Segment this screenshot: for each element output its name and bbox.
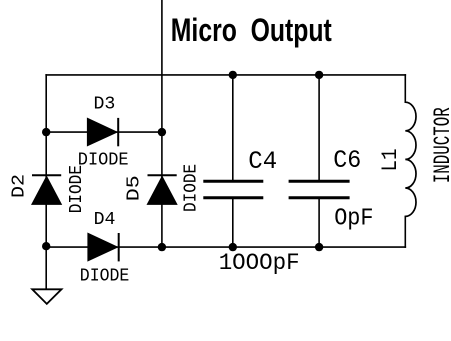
node junction dot D5 bottom bbox=[158, 243, 166, 251]
wire center vertical (Micro Output net) bbox=[161, 0, 163, 247]
capacitor C6 bbox=[289, 181, 350, 197]
wire left vertical bbox=[45, 75, 47, 289]
wire right vertical bottom (from inductor) bbox=[404, 216, 406, 247]
wire bottom bus bbox=[46, 246, 405, 248]
node junction dot C4 top bbox=[229, 71, 237, 79]
wire top bus bbox=[46, 74, 405, 76]
wire right vertical top (to inductor) bbox=[404, 75, 406, 102]
svg-text:DIODE: DIODE bbox=[80, 267, 130, 287]
diode D5 bbox=[148, 175, 177, 204]
inductor L1 coil bbox=[405, 102, 416, 216]
diode D4 bbox=[88, 233, 119, 261]
svg-text:C4: C4 bbox=[248, 147, 277, 176]
wire C4 branch bottom bbox=[232, 198, 234, 247]
wire C6 branch top bbox=[318, 75, 320, 181]
svg-text:D5: D5 bbox=[125, 175, 145, 201]
wire D3 row bbox=[46, 131, 162, 133]
ground bbox=[32, 289, 61, 304]
svg-text:Micro Output: Micro Output bbox=[171, 12, 332, 48]
node junction dot ground bbox=[42, 242, 50, 250]
svg-text:L1: L1 bbox=[377, 149, 403, 172]
capacitor C4 bbox=[203, 181, 263, 197]
svg-text:DIODE: DIODE bbox=[181, 164, 201, 212]
diode D3 bbox=[88, 118, 119, 146]
node junction dot C6 bottom bbox=[315, 243, 323, 251]
svg-text:D2: D2 bbox=[10, 174, 30, 198]
node junction dot C6 top bbox=[315, 71, 323, 79]
node junction dot D3 left bbox=[42, 128, 50, 136]
node junction dot D3 right bbox=[158, 128, 166, 136]
wire C6 branch bottom bbox=[318, 198, 320, 247]
node junction dot C4 bottom bbox=[229, 243, 237, 251]
svg-text:D4: D4 bbox=[94, 210, 116, 230]
svg-text:DIODE: DIODE bbox=[67, 165, 87, 213]
svg-text:1OOOpF: 1OOOpF bbox=[219, 250, 300, 277]
svg-text:D3: D3 bbox=[94, 95, 116, 115]
svg-text:OpF: OpF bbox=[334, 205, 373, 232]
diode D2 bbox=[32, 175, 61, 204]
svg-text:C6: C6 bbox=[333, 147, 361, 175]
wire C4 branch top bbox=[232, 75, 234, 181]
svg-text:INDUCTOR: INDUCTOR bbox=[430, 107, 451, 183]
